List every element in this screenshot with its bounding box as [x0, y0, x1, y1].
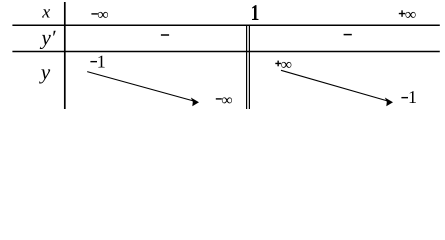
- svg-text:∞: ∞: [97, 6, 108, 23]
- value -1 y row lower right: [401, 87, 417, 107]
- value plus infinity y row upper right: [275, 57, 292, 74]
- svg-text:y′: y′: [40, 25, 56, 49]
- svg-text:y: y: [39, 60, 51, 84]
- value -1 y row upper left: [90, 52, 105, 72]
- svg-text:∞: ∞: [405, 6, 416, 23]
- label minus infinity x row left: [91, 6, 108, 23]
- svg-text:1: 1: [97, 52, 106, 72]
- svg-text:x: x: [41, 1, 50, 21]
- horizontal rule below y' row: [12, 51, 439, 53]
- svg-text:1: 1: [408, 87, 417, 107]
- value minus infinity y row lower left: [216, 92, 233, 109]
- decreasing variation arrow right interval: [281, 70, 393, 106]
- svg-text:∞: ∞: [221, 92, 232, 109]
- header column separator vertical line: [64, 2, 66, 109]
- label plus infinity x row right: [399, 6, 417, 23]
- decreasing variation arrow left interval: [87, 72, 199, 107]
- horizontal rule below x row: [12, 24, 439, 26]
- minus sign y' row right interval: [344, 34, 352, 36]
- svg-text:1: 1: [251, 0, 260, 25]
- minus sign y' row left interval: [161, 34, 169, 36]
- label 1 x row middle: [251, 0, 260, 25]
- double vertical line at x=1 discontinuity: [247, 25, 250, 109]
